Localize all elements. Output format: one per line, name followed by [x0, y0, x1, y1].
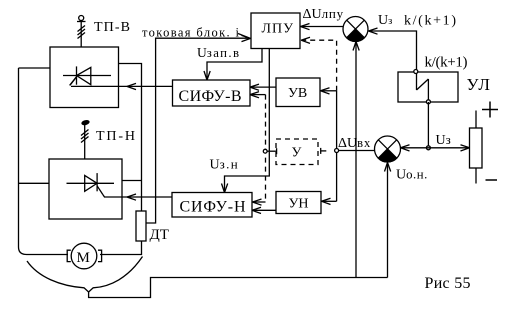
wire: current feedback (токовая блокировка) from ДТ to ЛПУ [146, 38, 250, 223]
wire: Uзап.в from ЛПУ bottom to СИФУ-В top [207, 49, 262, 80]
svg-text:УН: УН [289, 197, 309, 212]
svg-text:Рис 55: Рис 55 [425, 275, 471, 292]
wire: to УВ input [322, 90, 337, 92]
block SIFU-V (СИФУ-В) [173, 80, 251, 106]
plus terminal mark [482, 102, 498, 118]
wire: left DC bus vertical with bottom corner [19, 68, 69, 255]
arrowhead into ЛПУ left [242, 35, 251, 41]
node: junction on dashed line at У left [263, 149, 267, 153]
summing junction S2 (bottom, with filled lower sector) [375, 136, 401, 162]
wire: feedback to S1 bottom input [355, 43, 357, 278]
svg-text:У: У [292, 146, 302, 161]
block SIFU-N (СИФУ-Н) [172, 193, 252, 218]
AC supply symbol for ТП-В [77, 16, 86, 48]
wire: УН output to СИФУ-Н [253, 209, 277, 211]
wire: dashed line to СИФУ-В lower input [250, 92, 266, 98]
node: ΔUвх junction [335, 149, 339, 153]
svg-text:М: М [77, 250, 90, 266]
wire: k/(k+1) feedback from УЛ top to S1 right input [370, 31, 417, 72]
block UV (УВ) [276, 78, 320, 107]
wire: to УН input [323, 200, 337, 202]
block TP-N (ТП-Н thyristor converter reverse) [49, 159, 122, 219]
block UL (УЛ nonlinear unit) [398, 72, 458, 102]
wire: Uз from potentiometer to S2 [402, 147, 470, 149]
svg-text:УЛ: УЛ [467, 75, 492, 94]
wire: Uз.н from ЛПУ bottom to СИФУ-Н top [225, 49, 270, 192]
wire: ΔUлпу from S1 to ЛПУ [302, 26, 344, 28]
wire: СИФУ-В gate output to ТП-В [70, 77, 173, 90]
minus terminal mark [486, 179, 498, 181]
thyristor VS2 inside ТП-Н (points right) [67, 173, 115, 194]
wire: bottom feedback horizontal run [89, 278, 388, 298]
current sensor DT (ДТ) [136, 211, 146, 241]
svg-text:Uзап.в: Uзап.в [197, 45, 240, 60]
wire: motor right to ДТ bottom [100, 241, 142, 255]
svg-text:ДТ: ДТ [150, 227, 169, 243]
wire: bus to ТП-Н left [19, 182, 50, 184]
wire: dashed line to СИФУ-Н upper input [253, 199, 266, 205]
wire: СИФУ-Н gate output to ТП-Н [103, 194, 172, 200]
wire: УВ output to СИФУ-В [251, 86, 277, 88]
relay characteristic inside УЛ [417, 72, 429, 102]
wire: speed/EMF feedback to S2 bottom input [387, 164, 389, 278]
svg-text:Uз: Uз [436, 132, 452, 148]
svg-text:Uз: Uз [378, 13, 392, 28]
svg-text:Uз.н: Uз.н [210, 157, 240, 173]
block LPU (ЛПУ logic switching unit) [251, 13, 300, 49]
wire: stub from distribution line to У left pin [263, 148, 277, 154]
svg-text:СИФУ-Н: СИФУ-Н [180, 199, 246, 216]
svg-text:УВ: УВ [288, 86, 307, 101]
wire: stub from У right pin toward ΔUвх node [321, 148, 327, 154]
svg-text:k/(k+1): k/(k+1) [404, 13, 456, 28]
wire: dashed link node to ЛПУ right lower input [302, 40, 337, 91]
svg-text:ΔUлпу: ΔUлпу [303, 6, 344, 22]
arrowhead wiper into potentiometer [461, 145, 470, 151]
wire: ΔUвх output of S2 to node [337, 150, 375, 152]
summing junction S1 (top, with filled lower sector) [343, 17, 368, 42]
svg-text:ТП-В: ТП-В [94, 20, 130, 35]
wire: bus to ТП-В left [19, 67, 51, 69]
arrowhead down into СИФУ-В [204, 71, 210, 80]
block U (У, dashed amplifier) [276, 139, 318, 165]
node: УЛ bottom junction [426, 100, 430, 104]
wire: ДТ top up to converters junction [119, 64, 142, 212]
wire: УЛ bottom to Uз line [427, 102, 429, 148]
block UN (УН) [276, 192, 321, 214]
wire: vertical ΔUвх distribution to УВ and УН [336, 91, 338, 202]
wire: dashed У distribution line (vertical x=265.5) [265, 95, 267, 202]
AC supply symbol for ТП-Н [81, 120, 89, 159]
node: Uз line junction [426, 146, 430, 150]
thyristor VS1 inside ТП-В (points left) [63, 66, 111, 85]
leader line from label i to arrow [238, 34, 249, 38]
motor M (armature circle with brushes) [67, 243, 101, 269]
svg-text:СИФУ-В: СИФУ-В [179, 88, 242, 105]
svg-text:ТП-Н: ТП-Н [96, 129, 135, 144]
svg-text:ΔUвх: ΔUвх [338, 136, 371, 151]
potentiometer RP (setpoint, right side) [470, 111, 483, 184]
brace: EMF pickup under motor armature [27, 257, 143, 293]
arrowhead into S2 right [401, 145, 410, 151]
svg-text:k/(k+1): k/(k+1) [425, 55, 468, 71]
svg-text:ЛПУ: ЛПУ [262, 22, 294, 37]
node: УЛ top junction [414, 70, 418, 74]
arrowhead down into СИФУ-Н [222, 184, 228, 193]
svg-text:Uо.н.: Uо.н. [396, 167, 428, 182]
wire: ТП-Н output to vertical bus x=141.5 [122, 180, 142, 182]
block TP-V (ТП-В thyristor converter forward) [50, 47, 119, 108]
